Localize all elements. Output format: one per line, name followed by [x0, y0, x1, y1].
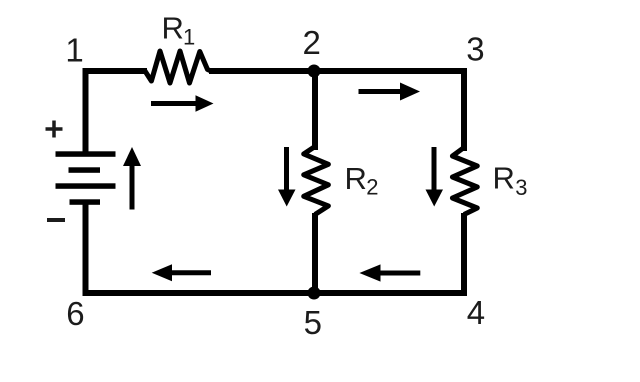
- current arrow: down beside R2: [278, 147, 296, 207]
- svg-text:R: R: [162, 11, 184, 46]
- svg-text:6: 6: [66, 295, 84, 332]
- svg-text:2: 2: [303, 24, 321, 61]
- resistor R1: [145, 51, 211, 83]
- svg-text:3: 3: [466, 31, 484, 68]
- svg-text:5: 5: [304, 304, 322, 341]
- svg-text:R: R: [493, 161, 515, 196]
- svg-text:1: 1: [183, 25, 195, 50]
- current arrow: up beside battery: [123, 147, 141, 210]
- wire: R2 to node 5: [312, 213, 318, 293]
- wire: top rail from R1 through node 2 to corner 3, down to R3: [209, 71, 464, 151]
- svg-text:4: 4: [467, 294, 485, 331]
- resistor R2: [304, 147, 329, 215]
- current arrow: left on bottom rail near node 4: [359, 264, 420, 281]
- current arrow: right below R1: [151, 95, 214, 112]
- wire: node 1 corner (left riser to top rail): [86, 71, 148, 156]
- wire: R3 down to corner 4 and along bottom to node 5: [313, 213, 464, 293]
- svg-text:R: R: [345, 161, 367, 196]
- svg-text:3: 3: [515, 175, 527, 200]
- battery plate: short: [69, 167, 101, 173]
- current arrow: right on top rail toward node 3: [359, 83, 421, 101]
- battery plate: long positive top: [56, 151, 116, 157]
- label R1: [162, 11, 196, 50]
- node 2 junction dot: [308, 65, 321, 78]
- svg-text:1: 1: [65, 32, 83, 69]
- svg-text:2: 2: [366, 175, 378, 200]
- polarity - label: [47, 218, 65, 222]
- battery plate: short negative bottom: [70, 199, 101, 205]
- current arrow: left on bottom rail near node 6: [152, 264, 211, 281]
- label R3: [493, 161, 528, 201]
- wire: node 2 to R2: [312, 69, 318, 150]
- node 5 junction dot: [308, 287, 321, 300]
- battery B1: [56, 151, 116, 205]
- polarity + label: [46, 121, 63, 138]
- battery plate: long: [56, 183, 116, 189]
- current arrow: down beside R3: [426, 147, 444, 207]
- wire: node 5 along bottom to corner 6, up to battery negative: [86, 200, 318, 293]
- label R2: [345, 161, 379, 200]
- resistor R3: [452, 148, 477, 215]
